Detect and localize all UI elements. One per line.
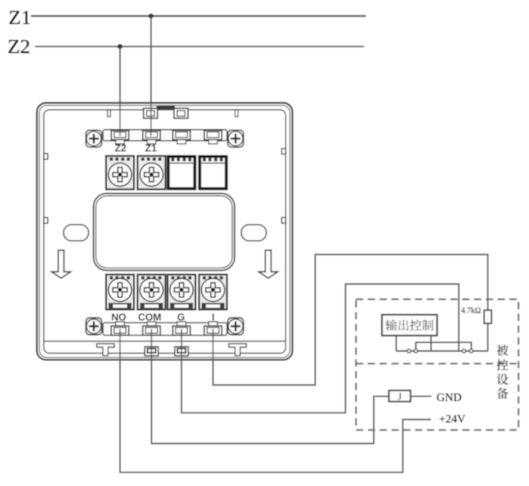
top edge tick left <box>107 110 110 117</box>
left orientation arrow <box>52 250 71 278</box>
bottom terminal G screw <box>168 275 196 310</box>
mounting screw bottom-left <box>86 318 102 335</box>
wire NO to +24V <box>120 329 431 472</box>
right orientation arrow <box>259 250 278 278</box>
top wire slot 4 <box>204 131 222 144</box>
junction dot on Z1 <box>149 14 154 19</box>
bottom terminal NO screw <box>106 275 134 310</box>
bottom terminal strip <box>103 323 227 336</box>
wire Z2 bus line <box>35 46 364 48</box>
bottom wire slot I <box>204 322 222 336</box>
bottom T-hook right <box>229 344 247 356</box>
top clip tab right <box>174 108 188 118</box>
wire COM to J connector <box>152 329 390 444</box>
svg-text:Z1: Z1 <box>9 7 32 29</box>
top edge tick right <box>235 110 238 117</box>
wire resistor to contact bar <box>487 323 489 351</box>
right edge notch upper <box>282 149 286 155</box>
top clip bar <box>157 106 176 109</box>
wire relay contact bar <box>396 350 488 352</box>
contact point 4 <box>470 349 473 352</box>
top clip tab left <box>144 108 158 118</box>
bottom wire slot NO <box>111 322 129 336</box>
wire G to contact bar <box>182 284 459 413</box>
svg-text:Z2: Z2 <box>8 36 31 58</box>
bottom T-hook left <box>97 344 115 356</box>
top wire slot 1 <box>111 131 129 144</box>
bottom terminal I screw <box>199 275 227 310</box>
module frame second line <box>39 105 290 357</box>
top terminal strip <box>103 130 227 141</box>
mounting screw top-left <box>86 130 102 147</box>
left edge notch lower <box>44 218 48 224</box>
right edge notch lower <box>282 218 286 224</box>
contact point 1 <box>407 349 410 352</box>
svg-text:Z1: Z1 <box>145 144 157 155</box>
contact point 2 <box>414 349 417 352</box>
top terminal 4 (spare) empty <box>200 157 227 189</box>
wire Z2 drop to terminal Z2 <box>119 47 121 137</box>
junction dot on Z2 <box>118 44 123 49</box>
connector J <box>389 391 411 402</box>
wire Z1 bus line <box>31 15 366 17</box>
svg-text:GND: GND <box>437 391 462 404</box>
bottom wire slot COM <box>143 322 161 336</box>
module center opening <box>94 194 235 271</box>
bottom clip box at COM <box>145 347 158 356</box>
module inner frame <box>44 110 286 353</box>
module baseplate bottom chord <box>44 340 286 342</box>
dashed divider <box>356 363 519 365</box>
left mounting hole <box>64 225 89 241</box>
right mounting hole <box>241 225 266 241</box>
left edge notch upper <box>44 154 48 160</box>
contact point 3 <box>462 349 465 352</box>
wire Z1 drop to terminal Z1 <box>150 16 152 136</box>
top wire slot 3 <box>173 131 191 144</box>
mounting screw bottom-right <box>228 318 244 335</box>
output control box 输出控制 <box>382 315 437 336</box>
svg-text:J: J <box>398 391 403 403</box>
top terminal 3 (spare) empty <box>168 157 195 189</box>
module outer frame <box>37 103 292 360</box>
wire J to GND <box>411 395 432 397</box>
wire box left leg <box>395 336 397 352</box>
bottom wire slot G <box>173 322 191 336</box>
svg-text:4.7kΩ: 4.7kΩ <box>461 306 481 315</box>
top terminal 1 (Z2) screw <box>106 156 134 189</box>
relay bridge <box>416 342 472 351</box>
wire I to resistor <box>213 255 488 386</box>
top wire slot 2 <box>143 131 161 144</box>
vertical label 被控设备 <box>497 345 509 399</box>
bottom terminal COM screw <box>138 275 166 310</box>
wire box right leg <box>430 336 432 352</box>
mounting screw top-right <box>228 130 244 147</box>
svg-text:Z2: Z2 <box>115 144 127 155</box>
label 输出控制 <box>385 319 433 330</box>
bottom clip box at G <box>175 347 188 356</box>
resistor R 4.7k <box>484 310 491 323</box>
dashed box controlled device <box>356 299 519 430</box>
svg-text:+24V: +24V <box>439 413 466 426</box>
top terminal 2 (Z1) screw <box>138 156 166 189</box>
